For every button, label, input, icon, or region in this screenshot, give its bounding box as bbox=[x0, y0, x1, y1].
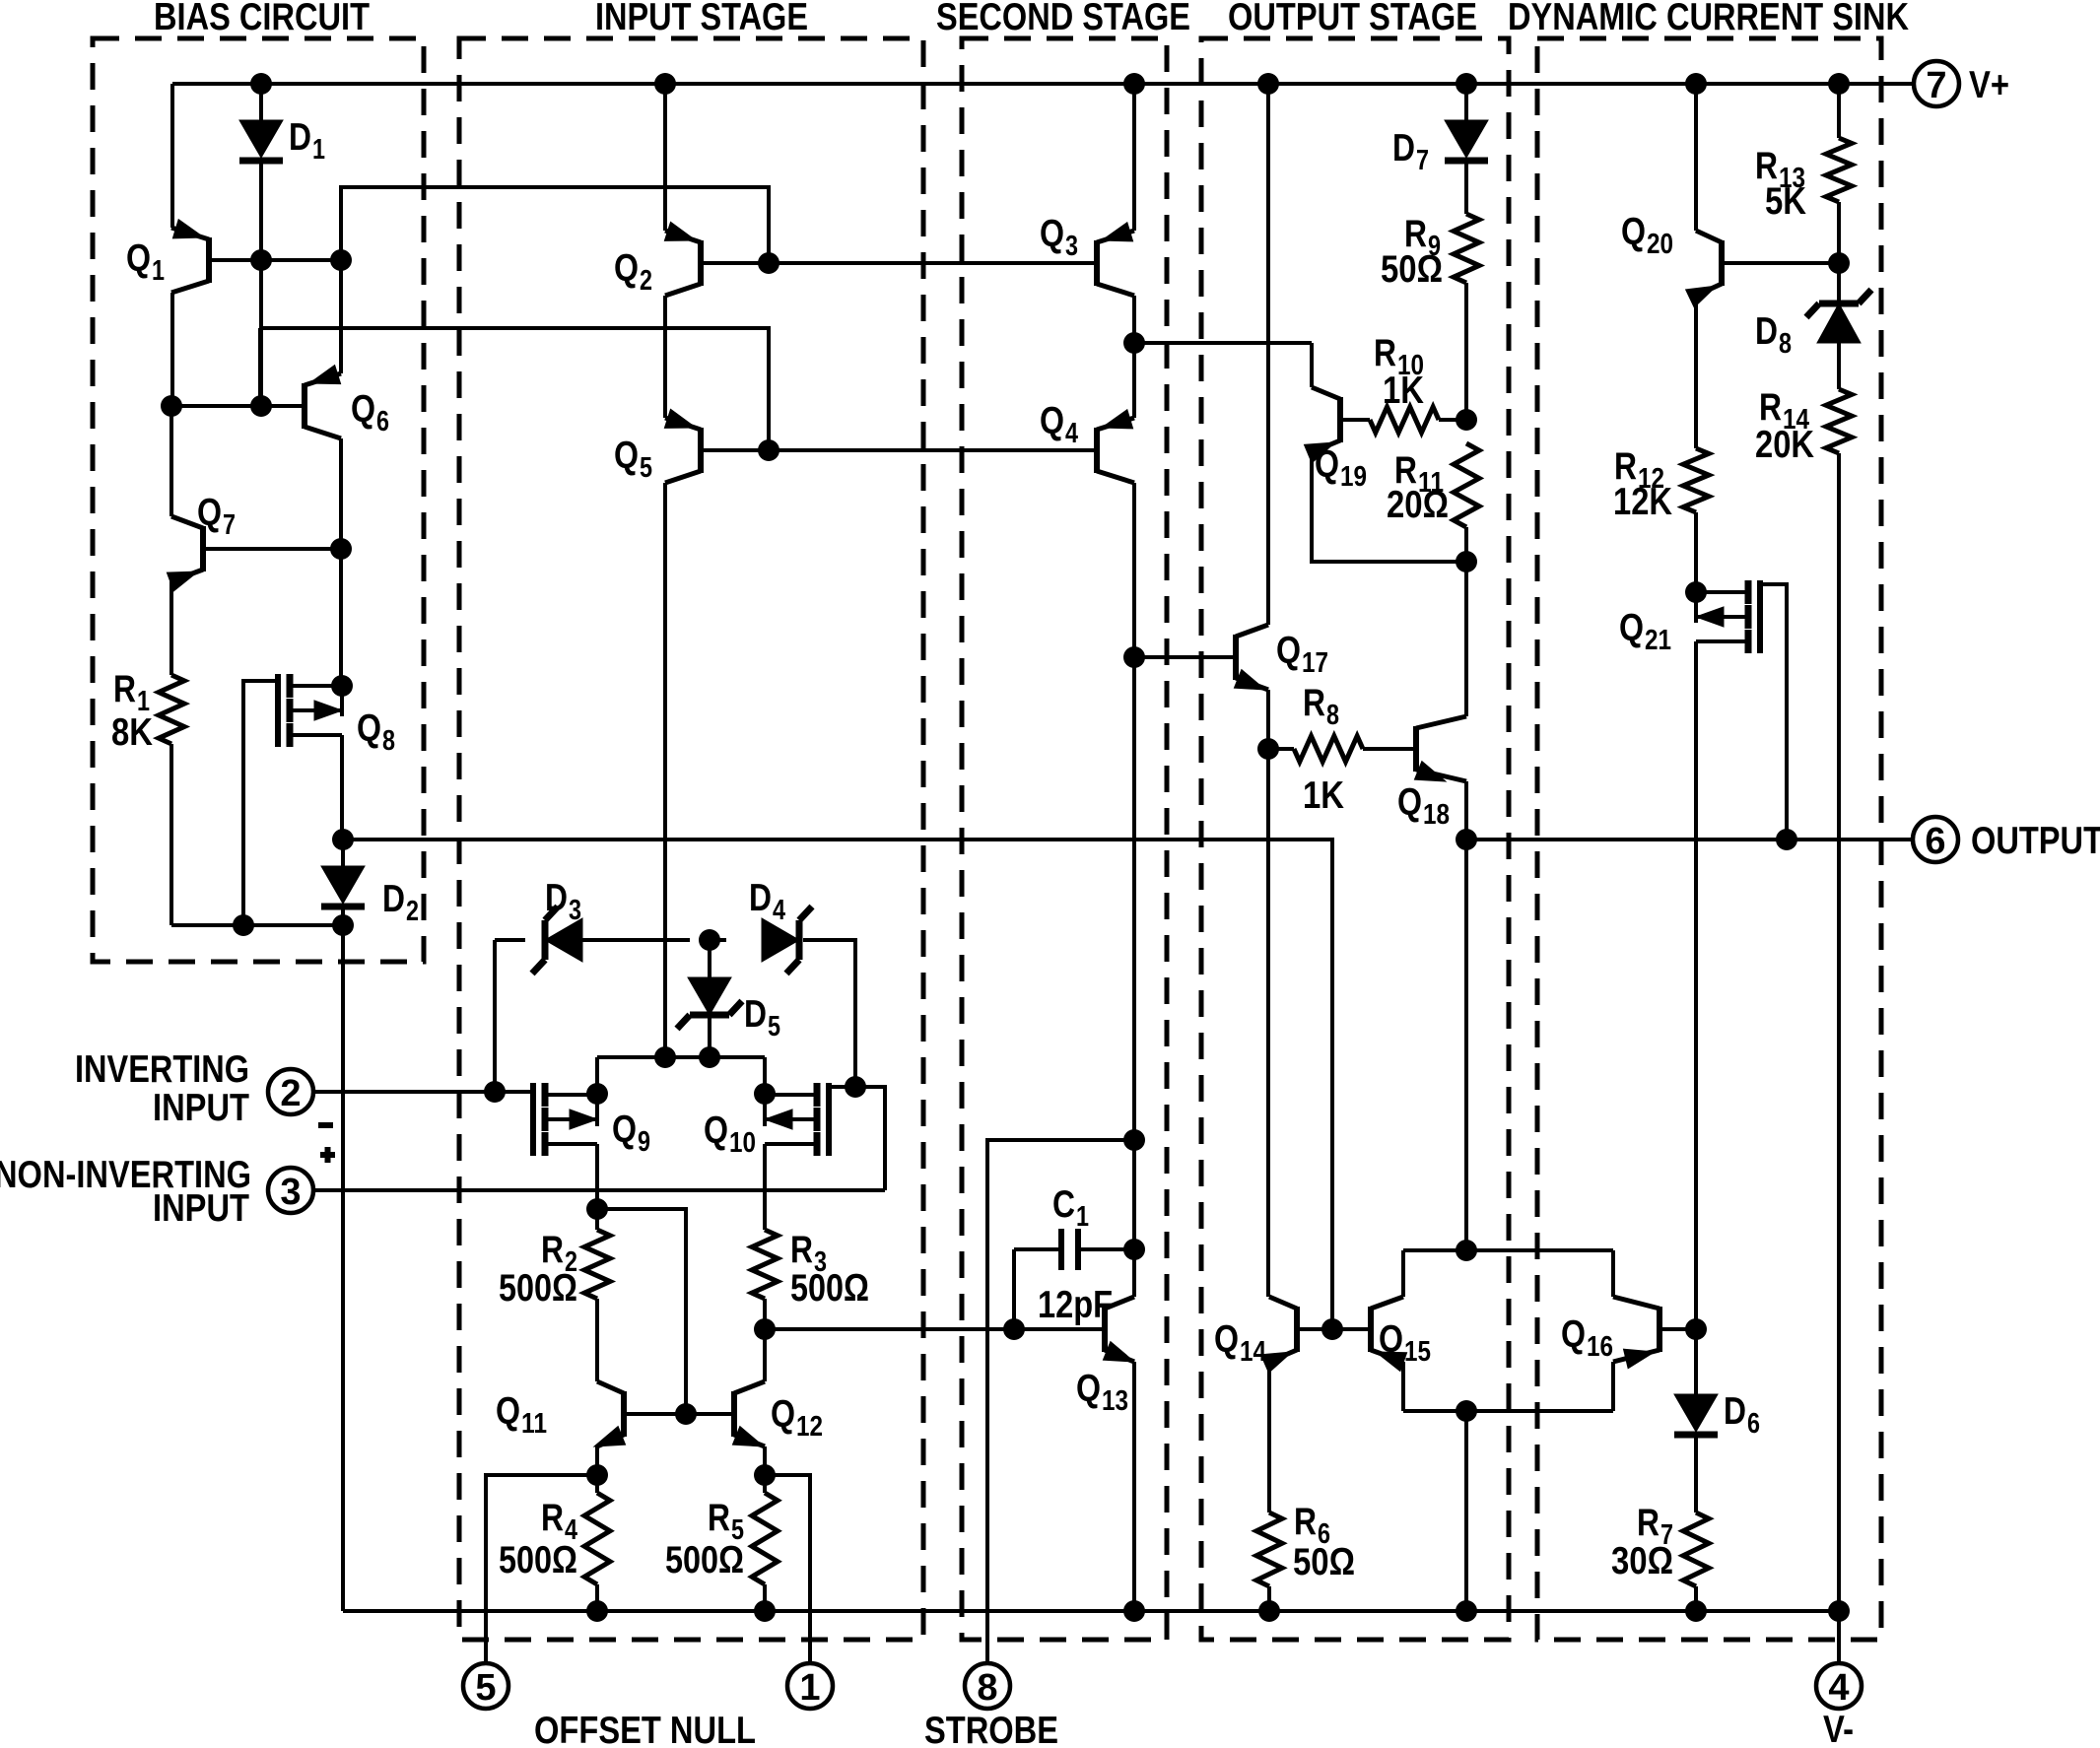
svg-text:15: 15 bbox=[1404, 1336, 1431, 1368]
node D1 column on Q6 base rail bbox=[250, 395, 272, 417]
pin 1 bbox=[787, 1663, 833, 1709]
pin 3 bbox=[268, 1168, 313, 1213]
svg-text:Q: Q bbox=[1561, 1313, 1586, 1356]
resistor R11 bbox=[1454, 443, 1479, 527]
wire Q17 emitter to R8 node bbox=[1266, 690, 1270, 749]
transistor Q20 bbox=[1719, 240, 1725, 286]
svg-text:OFFSET NULL: OFFSET NULL bbox=[534, 1710, 756, 1748]
svg-text:D: D bbox=[1755, 310, 1778, 353]
node R7 rail junction bbox=[1685, 1600, 1707, 1622]
wire Q13 emitter to rail bbox=[1132, 1362, 1136, 1611]
svg-text:11: 11 bbox=[521, 1408, 547, 1440]
wire Q10 source down to R3 bbox=[763, 1144, 767, 1230]
node Q1 collector / Q6 base rail junction bbox=[161, 395, 182, 417]
svg-text:R: R bbox=[541, 1497, 564, 1539]
node Q11 emitter / R4 / pin5 junction bbox=[586, 1464, 608, 1486]
resistor R7 bbox=[1683, 1513, 1709, 1586]
resistor R3 bbox=[752, 1230, 778, 1299]
svg-text:14: 14 bbox=[1240, 1336, 1266, 1368]
transistor Q12 bbox=[731, 1391, 737, 1437]
svg-text:5: 5 bbox=[768, 1011, 780, 1042]
wire R6 bottom to rail bbox=[1267, 1586, 1271, 1611]
wire Q3 emitter up to V+ bbox=[1132, 84, 1136, 231]
svg-text:Q: Q bbox=[614, 435, 639, 477]
wire Q4 emitter up bbox=[1132, 343, 1136, 418]
svg-text:2: 2 bbox=[640, 265, 652, 297]
svg-text:D: D bbox=[289, 116, 311, 159]
zener D4 bbox=[762, 918, 799, 962]
node bias rail D2 junction bbox=[332, 914, 354, 936]
mosfet Q10 bbox=[814, 1083, 821, 1107]
wire Q11/Q12 base rail bbox=[627, 1412, 731, 1416]
node V+ junction R13 bbox=[1828, 73, 1850, 95]
wire output wire right bbox=[1466, 838, 1913, 841]
wire R5 bottom to rail bbox=[763, 1584, 767, 1611]
wire D3 to D5 node bbox=[582, 938, 690, 942]
svg-text:R: R bbox=[1294, 1501, 1317, 1543]
wire Q19 collector up to cascode wire bbox=[1310, 343, 1314, 387]
svg-text:3: 3 bbox=[1065, 231, 1078, 262]
svg-text:R: R bbox=[541, 1229, 564, 1271]
resistor R10 bbox=[1343, 418, 1370, 422]
svg-text:R: R bbox=[113, 668, 136, 710]
svg-text:Q: Q bbox=[197, 492, 222, 534]
wire Q6 collector area loop to Q5 base bbox=[260, 328, 769, 450]
node R5 rail junction bbox=[754, 1600, 776, 1622]
svg-text:Q: Q bbox=[1619, 607, 1644, 649]
node bias rail gate junction bbox=[233, 914, 254, 936]
transistor Q1 bbox=[206, 237, 212, 283]
node R4 rail junction bbox=[586, 1600, 608, 1622]
wire V+ down to Q2 emitter bbox=[663, 84, 667, 231]
node V+ junction D1 bbox=[250, 73, 272, 95]
mosfet Q9 bbox=[542, 1083, 549, 1107]
svg-text:D: D bbox=[744, 993, 767, 1036]
dashed box DYNAMIC CURRENT SINK bbox=[1537, 38, 1881, 1640]
svg-text:12pF: 12pF bbox=[1038, 1284, 1113, 1326]
svg-text:2: 2 bbox=[406, 896, 419, 927]
dashed box BIAS CIRCUIT bbox=[93, 38, 424, 962]
wire Q14 emitter to R6 bbox=[1267, 1362, 1271, 1513]
wire output node down to box top bbox=[1464, 840, 1468, 1250]
wire Q8 gate lead bbox=[243, 681, 278, 925]
svg-text:Q: Q bbox=[126, 237, 151, 280]
svg-text:V+: V+ bbox=[1969, 64, 2009, 106]
dashed box SECOND STAGE bbox=[962, 38, 1167, 1640]
wire D6 to R7 bbox=[1694, 1438, 1698, 1513]
wire Q2/Q3 base rail bbox=[704, 261, 1094, 265]
svg-text:Q: Q bbox=[1621, 211, 1646, 253]
wire V+ left drop to Q1 emitter bbox=[170, 84, 174, 228]
svg-text:7: 7 bbox=[223, 509, 236, 541]
node Q6 collector / Q7 base junction bbox=[330, 538, 352, 560]
svg-text:Q: Q bbox=[496, 1390, 520, 1433]
svg-text:5K: 5K bbox=[1765, 180, 1806, 223]
svg-text:20Ω: 20Ω bbox=[1387, 484, 1449, 526]
svg-text:7: 7 bbox=[1416, 145, 1429, 176]
svg-text:500Ω: 500Ω bbox=[790, 1267, 869, 1310]
wire R9 bottom to R10 node bbox=[1464, 283, 1468, 418]
wire R3 bottom to Q12 collector bbox=[763, 1299, 767, 1381]
wire Q19 emitter loop bbox=[1312, 452, 1466, 562]
node Q9 drain junction bbox=[586, 1083, 608, 1105]
wire Q5/Q4 base rail bbox=[704, 448, 1094, 452]
svg-text:16: 16 bbox=[1587, 1331, 1613, 1363]
resistor R12 bbox=[1683, 448, 1709, 512]
resistor R4 bbox=[595, 1475, 599, 1493]
svg-text:Q: Q bbox=[1076, 1368, 1101, 1410]
node D4 / non-inverting gate junction bbox=[845, 1076, 866, 1098]
node V- rail end junction bbox=[1828, 1600, 1850, 1622]
node Q2 base junction bbox=[758, 252, 779, 274]
resistor R2 bbox=[595, 1209, 599, 1230]
transistor Q14 bbox=[1294, 1307, 1300, 1352]
wire Q20 emitter to R12 bbox=[1694, 296, 1698, 448]
svg-text:INPUT: INPUT bbox=[153, 1187, 249, 1230]
svg-text:DYNAMIC CURRENT SINK: DYNAMIC CURRENT SINK bbox=[1508, 0, 1909, 38]
svg-text:8K: 8K bbox=[111, 711, 153, 754]
svg-text:INPUT STAGE: INPUT STAGE bbox=[595, 0, 808, 38]
svg-text:R: R bbox=[1759, 386, 1782, 429]
svg-text:Q: Q bbox=[1214, 1318, 1239, 1361]
wire Q6 collector column down to Q8 drain bbox=[339, 549, 343, 684]
svg-text:5: 5 bbox=[640, 452, 652, 484]
wire Q15 emitter to box bottom bbox=[1401, 1362, 1405, 1411]
wire bias bottom rail bbox=[171, 923, 343, 927]
transistor Q18 bbox=[1413, 726, 1419, 772]
node V+ junction Q3 column bbox=[1123, 73, 1145, 95]
svg-text:D: D bbox=[545, 877, 568, 919]
node Q17 base junction bbox=[1123, 646, 1145, 668]
transistor Q3 bbox=[1094, 240, 1100, 286]
node R13 / D8 / Q20 base junction bbox=[1828, 252, 1850, 274]
svg-text:INVERTING: INVERTING bbox=[75, 1048, 249, 1091]
wire tail rail above input pair bbox=[597, 1055, 765, 1059]
wire Q2 collector to Q5 emitter bbox=[663, 296, 667, 418]
wire cascode junction to Q19 collector bbox=[1134, 341, 1312, 345]
transistor Q15 bbox=[1368, 1307, 1374, 1352]
svg-text:Q: Q bbox=[612, 1109, 637, 1151]
node V+ junction D7 bbox=[1456, 73, 1477, 95]
svg-text:8: 8 bbox=[1779, 328, 1792, 360]
wire Q16 base lead bbox=[1662, 1327, 1696, 1331]
wire mirror box top edge bbox=[1403, 1248, 1613, 1252]
svg-text:8: 8 bbox=[1326, 700, 1339, 731]
node D3 / inverting input junction bbox=[484, 1081, 506, 1103]
pin 8 bbox=[965, 1663, 1010, 1709]
wire D3 anode corner bbox=[495, 938, 525, 942]
svg-text:2: 2 bbox=[280, 1073, 301, 1114]
resistor R14 bbox=[1826, 389, 1852, 453]
zener D3 bbox=[545, 918, 582, 962]
node Q1 base to Q2 feed junction bbox=[330, 249, 352, 271]
svg-text:C: C bbox=[1052, 1183, 1075, 1226]
wire Q15 collector to mirror box top bbox=[1401, 1250, 1405, 1297]
svg-text:8: 8 bbox=[382, 725, 395, 757]
wire Q6 base rail bbox=[171, 404, 302, 408]
wire inverting input bbox=[313, 1090, 530, 1094]
svg-text:50Ω: 50Ω bbox=[1381, 248, 1443, 291]
svg-text:7: 7 bbox=[1926, 65, 1946, 106]
svg-text:R: R bbox=[708, 1497, 730, 1539]
svg-text:8: 8 bbox=[977, 1667, 997, 1709]
svg-text:Q: Q bbox=[1276, 630, 1301, 672]
wire Q17 base lead bbox=[1134, 655, 1233, 659]
transistor Q19 bbox=[1337, 397, 1343, 442]
svg-text:30Ω: 30Ω bbox=[1611, 1540, 1673, 1582]
wire Q7 collector up bbox=[169, 406, 173, 516]
wire Q8 drain-body stub bbox=[340, 686, 344, 716]
wire R11 bottom stub bbox=[1464, 527, 1468, 562]
zener D8 bbox=[1837, 263, 1841, 303]
svg-text:R: R bbox=[790, 1229, 813, 1271]
svg-text:17: 17 bbox=[1302, 647, 1328, 679]
wire R1 bottom to bias bottom rail bbox=[169, 744, 173, 925]
svg-text:6: 6 bbox=[1925, 821, 1945, 862]
transistor Q11 bbox=[621, 1391, 627, 1437]
node D1-Q1 base junction bbox=[250, 249, 272, 271]
wire tail corner to Q10 drain bbox=[763, 1057, 767, 1126]
node R8 junction bbox=[1257, 738, 1279, 760]
wire R14 long drop to V- rail bbox=[1837, 453, 1841, 1611]
svg-text:V-: V- bbox=[1823, 1709, 1854, 1748]
pin 6 bbox=[1913, 817, 1958, 862]
node C1 base junction bbox=[1003, 1318, 1025, 1340]
svg-text:1: 1 bbox=[152, 255, 165, 287]
node Q13 emitter rail junction bbox=[1123, 1600, 1145, 1622]
node Q13 base feed junction bbox=[754, 1318, 776, 1340]
node R10 junction bbox=[1456, 409, 1477, 431]
transistor Q4 bbox=[1094, 428, 1100, 473]
svg-text:9: 9 bbox=[638, 1126, 650, 1158]
pin 4 bbox=[1816, 1663, 1862, 1709]
wire box bottom down to rail bbox=[1464, 1411, 1468, 1611]
node Q10 drain junction bbox=[754, 1083, 776, 1105]
wire pin 5 stub bbox=[486, 1475, 597, 1664]
wire R12 bottom to Q21 drain bbox=[1694, 512, 1698, 592]
svg-text:12K: 12K bbox=[1613, 481, 1672, 523]
svg-text:Q: Q bbox=[357, 707, 381, 750]
node output junction bbox=[1456, 829, 1477, 850]
svg-text:OUTPUT STAGE: OUTPUT STAGE bbox=[1228, 0, 1477, 38]
svg-text:R: R bbox=[1637, 1502, 1660, 1544]
wire Q18 collector up to R11 node bbox=[1464, 562, 1468, 716]
capacitor C1 bbox=[1014, 1247, 1061, 1251]
wire R4 bottom to rail bbox=[595, 1584, 599, 1611]
wire Q7 emitter down to R1 bbox=[169, 581, 173, 675]
mosfet Q8 bbox=[287, 674, 294, 698]
node Q8 drain junction bbox=[331, 675, 353, 697]
node C1 right junction bbox=[1123, 1239, 1145, 1260]
diode D1 bbox=[259, 84, 263, 120]
wire strobe riser bbox=[987, 1140, 1134, 1664]
svg-text:Q: Q bbox=[351, 388, 375, 431]
svg-text:4: 4 bbox=[773, 895, 785, 926]
wire Q10 gate loop bbox=[829, 1087, 885, 1190]
node Q12 base junction bbox=[675, 1403, 697, 1425]
wire V+ rail bbox=[172, 82, 1913, 86]
svg-text:50Ω: 50Ω bbox=[1293, 1541, 1355, 1583]
resistor R13 bbox=[1837, 84, 1841, 138]
wire Q1 collector down bbox=[170, 293, 174, 406]
node R6 rail junction bbox=[1258, 1600, 1280, 1622]
dashed box OUTPUT STAGE bbox=[1201, 38, 1509, 1640]
zener D5 bbox=[708, 940, 711, 977]
node Q16 base / Q21 source junction bbox=[1685, 1318, 1707, 1340]
diode D6 bbox=[1674, 1394, 1718, 1432]
node Q5 base junction bbox=[758, 439, 779, 461]
wire Q18 emitter to output node bbox=[1464, 781, 1468, 840]
wire R8 node down to Q14 collector bbox=[1266, 749, 1270, 1297]
svg-text:D: D bbox=[749, 877, 772, 919]
wire box right top edge bbox=[1611, 1250, 1615, 1297]
svg-text:21: 21 bbox=[1645, 625, 1671, 656]
node tail junction D5 column bbox=[699, 1046, 720, 1068]
svg-text:6: 6 bbox=[376, 406, 389, 437]
node Q9 source junction bbox=[586, 1198, 608, 1220]
svg-text:1K: 1K bbox=[1303, 774, 1344, 817]
svg-text:SECOND STAGE: SECOND STAGE bbox=[936, 0, 1190, 38]
wire Q1 base up-over to Q2 base bbox=[341, 187, 769, 263]
svg-text:10: 10 bbox=[729, 1127, 756, 1159]
transistor Q6 bbox=[302, 383, 307, 429]
node D3/D4/D5 junction bbox=[699, 929, 720, 951]
wire Q5 collector long drop to input pair sources bbox=[663, 483, 667, 1057]
svg-text:Q: Q bbox=[1379, 1318, 1403, 1361]
wire R7 bottom to rail bbox=[1694, 1586, 1698, 1611]
wire Q21 source to D6 bbox=[1694, 1329, 1698, 1394]
wire Q21 gate loop to output bbox=[1760, 584, 1787, 840]
wire tail corner to Q9 drain bbox=[595, 1057, 599, 1126]
wire mirror box bottom edge bbox=[1403, 1409, 1613, 1413]
node Q21 gate output junction bbox=[1776, 829, 1797, 850]
transistor Q7 bbox=[200, 526, 206, 571]
node box bottom junction bbox=[1456, 1400, 1477, 1422]
resistor R8 bbox=[1268, 747, 1294, 751]
wire Q3 collector down bbox=[1132, 296, 1136, 343]
resistor R1 bbox=[159, 675, 184, 744]
svg-text:500Ω: 500Ω bbox=[499, 1539, 577, 1581]
wire Q6 emitter up to Q1 base node bbox=[339, 260, 343, 373]
pin 2 bbox=[268, 1069, 313, 1114]
wire Q9 source down bbox=[595, 1144, 599, 1209]
svg-text:OUTPUT: OUTPUT bbox=[1971, 820, 2100, 862]
svg-text:19: 19 bbox=[1340, 461, 1367, 493]
wire D4 cathode over to Q10 gate bbox=[803, 940, 855, 1087]
node V+ junction Q20 column bbox=[1685, 73, 1707, 95]
label plus bbox=[320, 1152, 335, 1158]
svg-text:5: 5 bbox=[475, 1667, 496, 1709]
svg-text:6: 6 bbox=[1747, 1408, 1760, 1440]
wire non-inverting input bbox=[313, 1188, 885, 1192]
wire D2 cathode long drop to V- rail bbox=[341, 925, 345, 1611]
wire sink-drive long wire from Q8 node bbox=[343, 840, 1332, 1329]
svg-text:500Ω: 500Ω bbox=[665, 1539, 744, 1581]
resistor R5 bbox=[763, 1475, 767, 1493]
svg-text:BIAS CIRCUIT: BIAS CIRCUIT bbox=[154, 0, 370, 38]
svg-text:Q: Q bbox=[771, 1393, 795, 1436]
svg-text:Q: Q bbox=[1315, 443, 1339, 486]
wire pin 1 stub bbox=[765, 1475, 810, 1664]
svg-text:13: 13 bbox=[1102, 1385, 1128, 1417]
node Q3/Q4 cascode junction bbox=[1123, 332, 1145, 354]
transistor Q17 bbox=[1233, 635, 1239, 680]
resistor R6 bbox=[1256, 1513, 1282, 1586]
svg-text:4: 4 bbox=[1828, 1667, 1849, 1709]
svg-text:4: 4 bbox=[1065, 418, 1078, 449]
svg-text:1: 1 bbox=[1076, 1201, 1089, 1233]
node Q21 drain junction bbox=[1685, 581, 1707, 603]
transistor Q5 bbox=[698, 428, 704, 473]
svg-text:Q: Q bbox=[1397, 781, 1422, 824]
svg-text:Q: Q bbox=[704, 1109, 728, 1152]
wire Q21 source long drop bbox=[1694, 641, 1698, 1329]
wire Q1 base rail bbox=[212, 258, 341, 262]
wire Q7 base rail bbox=[206, 547, 341, 551]
wire Q17 column V+ to collector bbox=[1266, 84, 1270, 625]
svg-text:Q: Q bbox=[1040, 400, 1064, 442]
svg-text:12: 12 bbox=[796, 1411, 823, 1443]
wire Q11 emitter down bbox=[595, 1446, 599, 1475]
wire D5 node to D4 bbox=[710, 938, 726, 942]
svg-text:1K: 1K bbox=[1383, 370, 1424, 412]
pin 5 bbox=[463, 1663, 508, 1709]
node sink mirror base junction bbox=[1321, 1318, 1343, 1340]
diode D7 bbox=[1464, 84, 1468, 120]
svg-text:D: D bbox=[1724, 1390, 1746, 1433]
svg-text:18: 18 bbox=[1423, 799, 1450, 831]
svg-text:D: D bbox=[1392, 127, 1415, 169]
transistor Q2 bbox=[698, 240, 704, 286]
resistor R9 bbox=[1454, 214, 1479, 283]
wire Q20 collector up to V+ bbox=[1694, 84, 1698, 231]
node Q8 source / D2 / output-wire junction bbox=[332, 829, 354, 850]
svg-text:STROBE: STROBE bbox=[924, 1710, 1058, 1748]
wire Q21 drain-body stub bbox=[1694, 592, 1698, 623]
svg-text:R: R bbox=[1374, 332, 1396, 374]
transistor Q13 bbox=[1102, 1307, 1108, 1352]
node strobe junction bbox=[1123, 1129, 1145, 1151]
node box rail junction bbox=[1456, 1600, 1477, 1622]
node V+ junction Q17 column bbox=[1257, 73, 1279, 95]
wire D3 corner down to pin2 wire bbox=[493, 940, 497, 1092]
svg-text:INPUT: INPUT bbox=[153, 1087, 249, 1129]
wire V- rail bbox=[343, 1609, 1839, 1613]
label minus bbox=[318, 1122, 333, 1128]
svg-text:3: 3 bbox=[280, 1172, 301, 1213]
svg-text:D: D bbox=[382, 878, 405, 920]
wire pin 4 stub bbox=[1837, 1611, 1841, 1664]
node V+ junction Q2 column bbox=[654, 73, 676, 95]
node box top junction bbox=[1456, 1240, 1477, 1261]
wire Q6 collector down to Q7 base rail bbox=[339, 438, 343, 549]
svg-text:R: R bbox=[1303, 682, 1325, 724]
svg-text:1: 1 bbox=[799, 1667, 820, 1709]
wire Q12 emitter down bbox=[763, 1446, 767, 1475]
svg-text:20K: 20K bbox=[1755, 424, 1814, 466]
wire R2 bottom to Q11 collector bbox=[595, 1299, 599, 1381]
wire Q14/Q15 base rail bbox=[1294, 1327, 1368, 1331]
mosfet Q21 bbox=[1745, 580, 1752, 604]
node tail junction Q5 column bbox=[654, 1046, 676, 1068]
transistor Q16 bbox=[1657, 1307, 1662, 1352]
svg-text:Q: Q bbox=[1040, 213, 1064, 255]
svg-text:500Ω: 500Ω bbox=[499, 1267, 577, 1310]
wire Q8 source down to output node bbox=[340, 735, 344, 840]
svg-text:3: 3 bbox=[569, 895, 581, 926]
diode D2 bbox=[341, 840, 345, 866]
wire Q4 collector long drop to Q13 collector bbox=[1132, 483, 1136, 1297]
